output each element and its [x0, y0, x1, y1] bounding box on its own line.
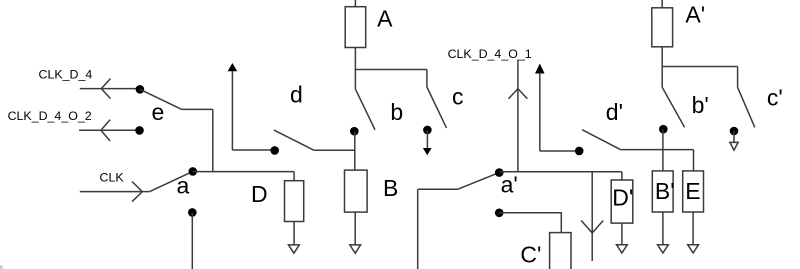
resistor A' [652, 8, 673, 47]
svg-text:B: B [383, 175, 398, 201]
capacitor B' [652, 171, 673, 212]
switch b blade [355, 89, 375, 130]
wire E drop [693, 150, 695, 171]
wire below B' [662, 212, 664, 245]
svg-text:A: A [377, 5, 393, 31]
wire D drop [293, 172, 295, 181]
resistor A [345, 7, 366, 48]
wire a' rail [499, 171, 622, 173]
svg-text:D: D [251, 181, 268, 207]
wire d pivot to B stem [314, 149, 355, 151]
port arrow CLK_D_4 [101, 79, 110, 99]
svg-text:a': a' [501, 172, 518, 198]
port arrow CLK_D_4_O_1 [509, 89, 528, 99]
wire CLK_D_4_O_2 input [79, 129, 136, 131]
wire c' stub [737, 67, 739, 88]
svg-text:c': c' [767, 84, 783, 110]
switch d' blade [582, 130, 620, 150]
svg-text:CLK_D_4_O_1: CLK_D_4_O_1 [448, 47, 532, 61]
wire d' pivot to E drop [620, 149, 693, 151]
switch a blade [150, 171, 193, 191]
wire c stub [426, 70, 428, 88]
faint corner mark [0, 265, 3, 269]
output arrow up (left) [228, 63, 238, 71]
output arrow down chevron [581, 221, 603, 234]
wire rail b c [355, 69, 427, 71]
node a' [495, 168, 504, 177]
open arrow below B [350, 245, 361, 253]
wire b' stub [661, 67, 663, 88]
svg-text:b': b' [692, 92, 709, 118]
wire node b' to B' [662, 129, 664, 171]
node below a [188, 208, 197, 217]
wire switch e to drop [182, 108, 213, 110]
open arrow below D [289, 245, 300, 253]
wire below D [293, 222, 295, 245]
svg-text:CLK_D_4: CLK_D_4 [39, 68, 93, 82]
wire below B [354, 212, 356, 245]
node a [189, 167, 198, 176]
wire below node c [426, 130, 428, 148]
wire rail b' c' [662, 66, 737, 68]
capacitor E [683, 171, 704, 212]
node d [270, 146, 279, 155]
wire a' drop to bottom edge [417, 189, 419, 269]
switch c' blade [738, 87, 755, 127]
wire to node d' [540, 150, 576, 152]
svg-text:CLK_D_4_O_2: CLK_D_4_O_2 [8, 109, 92, 123]
open arrow below D' [617, 245, 628, 253]
svg-text:b: b [390, 99, 403, 125]
open arrow below B' [658, 245, 669, 253]
svg-text:c: c [452, 84, 464, 110]
svg-text:A': A' [685, 2, 705, 28]
node CLK_D_4_O_2 [135, 126, 144, 135]
wire a' horizontal [418, 188, 458, 190]
output arrow up (middle) [535, 64, 545, 74]
wire CLK input [80, 191, 150, 193]
node c [423, 126, 432, 135]
node c' [730, 127, 739, 136]
switch b' blade [662, 87, 684, 127]
node a' lower [495, 209, 504, 218]
node b [350, 127, 359, 136]
svg-text:CLK: CLK [100, 171, 125, 185]
wire A' stem bottom [661, 47, 663, 67]
switch c blade [427, 87, 447, 128]
resistor D [285, 181, 304, 222]
open arrow below E [688, 245, 699, 253]
wire output down [591, 172, 593, 261]
svg-text:B': B' [655, 178, 675, 204]
capacitor D' [611, 180, 633, 223]
wire below D' [621, 223, 623, 244]
svg-text:d: d [290, 81, 303, 107]
port arrow CLK [132, 182, 142, 202]
wire output up vertical [231, 71, 233, 150]
svg-text:C': C' [520, 242, 541, 268]
svg-text:a: a [177, 173, 190, 199]
wire b stub [354, 70, 356, 90]
svg-text:E: E [685, 178, 700, 204]
wire below E [692, 212, 694, 245]
wire lower a' to C' [499, 213, 561, 233]
wire to node d [232, 149, 271, 151]
open arrow below c' [730, 142, 738, 150]
wire CLK_D_4 input [80, 88, 137, 90]
node CLK_D_4 [136, 85, 145, 94]
wire below node c' [733, 131, 735, 142]
filled arrow down below c [423, 148, 432, 155]
wire node b to B [354, 131, 356, 170]
wire output up vertical (middle) [539, 73, 541, 151]
wire D' drop [621, 172, 623, 180]
svg-text:d': d' [606, 99, 623, 125]
wire e vertical drop [212, 109, 214, 172]
resistor B [345, 170, 368, 212]
wire A stem top [354, 0, 356, 7]
svg-text:D': D' [612, 185, 633, 211]
node d' [575, 147, 584, 156]
wire CLK_D_4_O_1 vertical [517, 60, 519, 172]
node b' [659, 125, 668, 134]
port arrow CLK_D_4_O_2 [101, 120, 110, 141]
wire below node a to bottom edge [191, 212, 193, 269]
wire A stem bottom [354, 48, 356, 70]
switch a' blade [458, 173, 500, 190]
wire a rail [193, 171, 294, 173]
switch e blade [140, 89, 182, 109]
switch d blade [274, 130, 314, 150]
wire A' stem top [661, 0, 663, 8]
capacitor C' [550, 233, 571, 269]
svg-text:e: e [152, 99, 165, 125]
